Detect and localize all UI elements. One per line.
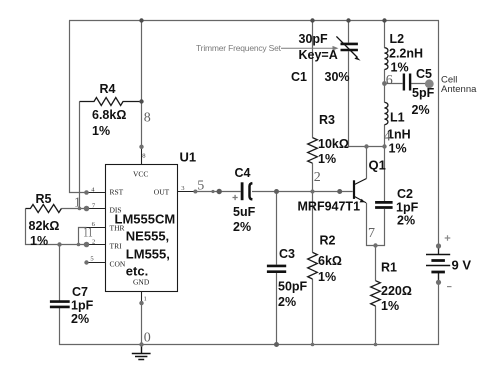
svg-text:1%: 1%: [318, 270, 336, 284]
pin 4 stub RST: [87, 192, 106, 194]
svg-text:6.8kΩ: 6.8kΩ: [92, 108, 126, 122]
node R1 bottom: [374, 343, 378, 347]
node C7 TRI junction: [57, 242, 61, 246]
svg-text:Antenna: Antenna: [441, 84, 477, 95]
node battery minus: [436, 280, 441, 285]
node THR TRI junction: [77, 243, 81, 247]
svg-text:TRI: TRI: [110, 242, 123, 251]
node R4 DIS junction: [78, 207, 82, 211]
svg-text:2%: 2%: [233, 220, 251, 234]
pin 6 stub THR: [87, 227, 106, 229]
inductor L1: [385, 102, 411, 155]
svg-text:Q1: Q1: [369, 158, 386, 173]
svg-text:1: 1: [144, 296, 147, 303]
node battery plus: [436, 243, 441, 248]
wire Q1 emitter to node 7: [367, 203, 376, 246]
wire R1 branch: [375, 246, 377, 346]
svg-text:Key=A: Key=A: [299, 48, 338, 62]
svg-text:1%: 1%: [391, 61, 409, 75]
resistor R1: [371, 261, 412, 314]
pin 8 stub VCC: [141, 147, 143, 165]
node top L2: [382, 18, 386, 22]
op-amp U1 LM555CM body: [106, 165, 178, 292]
svg-text:C1: C1: [291, 70, 307, 84]
svg-text:1%: 1%: [92, 124, 110, 138]
svg-text:GND: GND: [133, 278, 150, 287]
wire C3 branch: [276, 192, 278, 346]
node C3 bottom: [274, 342, 279, 347]
cell antenna label: [441, 75, 477, 96]
wire right rail (battery branch): [438, 21, 440, 346]
wire left rail to RST: [70, 21, 87, 193]
resistor R3: [308, 113, 349, 166]
wire trimmer C1 branch: [349, 21, 385, 147]
node R3 R2 base: [311, 190, 315, 194]
wire Q1 collector: [366, 147, 368, 179]
pin 7 stub DIS: [87, 208, 106, 210]
svg-text:2%: 2%: [71, 312, 89, 326]
node 7 emitter R1 C2: [373, 243, 377, 247]
node R4 VCC: [139, 99, 143, 103]
svg-text:LM555CM: LM555CM: [115, 212, 176, 227]
wire THR to TRI: [79, 228, 87, 245]
resistor R2: [308, 234, 342, 285]
svg-text:5pF: 5pF: [412, 86, 435, 100]
svg-text:5uF: 5uF: [233, 205, 256, 219]
pin 3 stub OUT: [178, 191, 196, 193]
pin 2 stub TRI: [87, 244, 106, 246]
svg-text:220Ω: 220Ω: [381, 284, 412, 298]
svg-text:R5: R5: [36, 192, 52, 206]
svg-text:11: 11: [83, 225, 93, 240]
wire C2 branch: [376, 147, 385, 246]
node pin5 CON: [84, 260, 88, 264]
svg-text:0: 0: [144, 331, 151, 346]
svg-text:NE555,: NE555,: [126, 229, 169, 244]
node out wire b: [217, 189, 222, 194]
svg-text:C5: C5: [416, 67, 432, 81]
node top C1: [346, 18, 350, 22]
svg-text:4: 4: [384, 130, 391, 145]
svg-text:82kΩ: 82kΩ: [29, 219, 60, 233]
wire C4 to Q1 base: [252, 191, 353, 193]
wire VCC pin 8: [141, 21, 143, 147]
node L1 C2 junction: [382, 144, 386, 148]
svg-text:LM555,: LM555,: [126, 247, 170, 262]
inductor L2: [385, 32, 424, 75]
svg-text:1%: 1%: [30, 234, 48, 248]
svg-text:1%: 1%: [381, 299, 399, 313]
resistor R4: [80, 82, 142, 138]
node top R3: [310, 18, 314, 22]
variable capacitor C1 trimmer: [291, 32, 361, 84]
wire L2 L1 branch: [384, 21, 386, 147]
node pin7 DIS: [84, 206, 90, 212]
wire R4 to DIS: [79, 102, 81, 209]
svg-text:R1: R1: [381, 261, 397, 275]
wire R3 branch: [312, 21, 314, 192]
node R2 bottom: [311, 343, 315, 347]
pin 1 stub GND: [141, 292, 143, 304]
svg-text:10kΩ: 10kΩ: [318, 137, 349, 151]
wire GND pin to rail: [141, 303, 143, 345]
svg-text:U1: U1: [180, 150, 197, 165]
capacitor C4 polarized: [233, 166, 256, 234]
svg-text:C4: C4: [235, 166, 251, 180]
capacitor C3: [267, 247, 308, 309]
svg-text:2%: 2%: [412, 103, 430, 117]
svg-text:L1: L1: [390, 111, 405, 125]
svg-text:C2: C2: [397, 187, 413, 201]
node out wire a: [211, 190, 214, 193]
svg-text:C3: C3: [279, 247, 295, 261]
node L2 C5 junction: [382, 81, 387, 86]
svg-text:1pF: 1pF: [396, 201, 419, 215]
battery V1 9V: [426, 235, 471, 286]
svg-text:1pF: 1pF: [71, 299, 94, 313]
node collector junction: [364, 144, 368, 148]
wire R2 branch: [312, 192, 314, 346]
antenna terminal dot: [425, 79, 434, 88]
pin 5 stub CON: [87, 262, 106, 264]
svg-text:R2: R2: [320, 234, 336, 248]
wire top rail VCC: [69, 20, 439, 22]
svg-text:MRF947T1: MRF947T1: [298, 200, 361, 214]
svg-text:2.2nH: 2.2nH: [389, 47, 423, 61]
node base wire: [337, 189, 342, 194]
svg-text:5: 5: [197, 179, 204, 194]
svg-text:6kΩ: 6kΩ: [318, 254, 342, 268]
wire R5 loop to TRI: [26, 209, 87, 245]
wire bottom rail ground: [59, 344, 439, 346]
svg-text:1%: 1%: [318, 152, 336, 166]
capacitor C7: [50, 285, 94, 326]
svg-text:1: 1: [74, 196, 81, 211]
svg-text:etc.: etc.: [126, 264, 148, 279]
svg-text:2: 2: [314, 170, 321, 185]
svg-text:VCC: VCC: [133, 170, 148, 179]
node pin3 OUT: [193, 190, 197, 194]
svg-text:C7: C7: [72, 285, 88, 299]
node pin1 GND: [139, 301, 143, 305]
ground symbol: [132, 345, 151, 360]
wire C7 branch: [59, 245, 61, 346]
svg-text:RST: RST: [110, 188, 124, 197]
node pin2 TRI: [84, 242, 90, 248]
node top VCC x141: [139, 18, 143, 22]
transistor Q1 MRF947T1: [298, 158, 386, 214]
node GND rail: [139, 342, 143, 346]
svg-text:6: 6: [386, 73, 393, 88]
wire DIS line: [61, 208, 86, 210]
capacitor C5: [404, 67, 435, 117]
svg-text:50pF: 50pF: [278, 280, 308, 294]
svg-text:R3: R3: [319, 113, 335, 127]
wire OUT to C4: [195, 191, 240, 193]
svg-text:2%: 2%: [397, 214, 415, 228]
svg-text:2%: 2%: [278, 295, 296, 309]
svg-text:30pF: 30pF: [299, 32, 329, 46]
svg-text:8: 8: [144, 111, 151, 126]
trimmer frequency set callout: [196, 43, 339, 53]
svg-text:R4: R4: [100, 82, 116, 96]
svg-text:CON: CON: [110, 260, 126, 269]
node C3 top: [274, 189, 279, 194]
node pin4 RST: [84, 190, 89, 195]
svg-text:OUT: OUT: [154, 188, 170, 197]
resistor R5: [26, 192, 62, 248]
svg-text:L2: L2: [390, 32, 405, 46]
wire C5 antenna: [385, 83, 426, 85]
svg-text:7: 7: [368, 226, 375, 241]
node pin8: [139, 145, 143, 149]
capacitor C2: [375, 187, 418, 228]
svg-text:1%: 1%: [389, 142, 407, 156]
svg-text:30%: 30%: [325, 70, 350, 84]
svg-text:9 V: 9 V: [452, 258, 472, 273]
svg-text:Trimmer Frequency Set: Trimmer Frequency Set: [196, 43, 282, 53]
